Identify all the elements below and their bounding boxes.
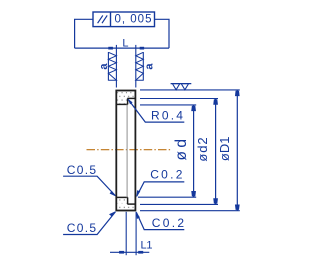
extension line od2 top [140, 98, 218, 100]
surface stack left triangles [108, 52, 116, 80]
hatch top section [117, 92, 134, 104]
svg-text:øD1: øD1 [217, 137, 232, 162]
surface stack right: base line [142, 52, 144, 81]
svg-text:C0.5: C0.5 [67, 221, 98, 235]
extension line oD1 bottom [140, 210, 240, 212]
C0.5 bottom arrowhead [109, 211, 116, 216]
C0.2 bottom underline and leader [136, 212, 184, 229]
svg-text:a: a [144, 63, 156, 70]
surface stack left: base line [107, 52, 109, 81]
svg-text:ød: ød [173, 136, 190, 161]
step bottom vertical edge [127, 197, 129, 204]
C0.5 top arrowhead [110, 191, 116, 197]
L extension line left [115, 45, 117, 88]
R0.4 arrowhead [128, 99, 133, 105]
C0.2 bottom arrowhead [136, 212, 140, 219]
extension line od top [140, 104, 196, 106]
svg-text:R0.4: R0.4 [151, 109, 185, 123]
surface stack right triangles [136, 52, 144, 80]
step top vertical edge [127, 98, 129, 104]
R0.4 leader [128, 99, 184, 122]
frame leader right [155, 19, 170, 48]
svg-text:a: a [98, 63, 110, 70]
L1 dim arrow blobs [119, 251, 124, 254]
extension line od bottom [138, 196, 196, 198]
counterbore top edge [127, 97, 135, 99]
centerline [87, 149, 172, 151]
step circle gray line [126, 104, 128, 197]
extension line oD1 top [140, 89, 240, 91]
svg-text:L: L [122, 38, 128, 50]
feature control frame [93, 12, 155, 27]
bore bottom edge [116, 196, 128, 198]
svg-text:C0.2: C0.2 [152, 216, 187, 230]
svg-text:0, 005: 0, 005 [115, 13, 153, 25]
bore top edge [116, 103, 128, 105]
svg-text:C0.2: C0.2 [150, 167, 185, 181]
parallelism symbol [98, 15, 103, 23]
svg-text:C0.5: C0.5 [67, 163, 98, 177]
C0.5 top underline and leader [63, 176, 115, 195]
C0.5 bottom underline and leader [63, 212, 115, 235]
L1 dimension line [110, 251, 149, 253]
frame leader left [75, 19, 93, 48]
L extension line right [135, 45, 137, 88]
extension line od2 bottom [140, 203, 218, 205]
oD1 arrows [235, 91, 240, 96]
C0.2 top underline and leader [137, 182, 185, 196]
svg-text:L1: L1 [141, 240, 153, 252]
hatch bottom section [117, 198, 134, 210]
double triangle finish symbol on OD [171, 83, 192, 85]
counterbore bottom edge [127, 203, 135, 205]
part outline outer [116, 91, 135, 211]
od arrows [191, 106, 196, 111]
od dimension line [193, 105, 195, 197]
oD1 dimension line [236, 90, 238, 211]
L dimension line [75, 47, 169, 49]
C0.2 top arrowhead [136, 190, 140, 197]
L1 extension lines [125, 212, 127, 255]
L dim arrow blobs [108, 47, 113, 50]
svg-text:ød2: ød2 [195, 136, 210, 161]
od2 arrows [213, 99, 218, 104]
od2 dimension line [215, 99, 217, 205]
